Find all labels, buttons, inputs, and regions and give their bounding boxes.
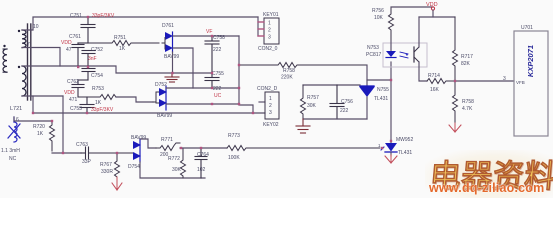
svg-text:R772: R772 [168,156,180,162]
svg-text:VF: VF [206,29,212,35]
svg-text:C756: C756 [341,99,353,105]
diode D761 BAV99 [162,32,173,52]
wire stub CON2_D pin2 [259,101,265,103]
svg-text:2: 2 [269,103,272,109]
svg-text:D761: D761 [162,23,174,29]
svg-text:N755: N755 [377,87,389,93]
svg-text:10K: 10K [374,15,384,21]
svg-text:R758: R758 [283,68,295,74]
wire VFB node [455,80,514,82]
resistor R720 1K [50,121,55,151]
capacitor C756 [330,85,344,119]
svg-text:1: 1 [378,143,381,148]
svg-text:471: 471 [69,97,78,103]
svg-text:3nF: 3nF [88,56,97,62]
wire feedback rail long [33,112,265,114]
svg-text:R714: R714 [428,73,440,79]
capacitor C764 102 [195,148,207,178]
svg-text:NC: NC [9,156,17,162]
svg-text:R771: R771 [161,137,173,143]
resistor R751 [88,41,159,46]
svg-text:C754: C754 [91,73,103,79]
svg-text:2: 2 [268,28,271,34]
wire R756 to VDD [391,6,433,8]
core [27,24,29,100]
wire D752 top [166,87,239,89]
wire bottom rail left [52,152,81,154]
svg-text:1K: 1K [119,46,126,52]
optocoupler N753 PC817 [383,41,427,67]
wire top right rail [419,16,455,18]
resistor R756 10K [389,7,394,43]
svg-text:3: 3 [503,76,506,82]
svg-text:30K: 30K [172,167,182,173]
capacitor C753 [80,97,94,113]
capacitor C761 [72,43,88,67]
svg-text:D752: D752 [155,82,167,88]
resistor R758 220K [239,63,366,68]
svg-text:N753: N753 [367,45,379,51]
resistor R757 30K [301,85,306,119]
svg-text:R773: R773 [228,133,240,139]
svg-text:TL431: TL431 [374,96,388,102]
svg-text:C762: C762 [67,79,79,85]
resistor R717 82K [453,17,458,81]
shunt MW952 TL431 [381,62,397,156]
wire D761 bottom to D752 top [173,48,193,88]
svg-text:KEY02: KEY02 [263,122,279,128]
svg-text:47: 47 [66,47,72,53]
svg-text:220K: 220K [281,75,293,81]
svg-text:U701: U701 [521,25,533,31]
wire bus [239,36,253,113]
svg-text:1K: 1K [37,131,44,137]
primary winding [3,49,7,72]
wire D754 top to rail [140,139,156,148]
svg-text:C755: C755 [212,71,224,77]
diode D752 BAV99 [159,86,167,110]
svg-text:10: 10 [33,24,39,30]
wire comp network bottom [303,118,367,120]
svg-text:4.7K: 4.7K [462,106,473,112]
wire top rail [22,17,258,30]
wire comp network top [303,84,360,86]
svg-text:C764: C764 [197,152,209,158]
svg-text:16K: 16K [430,87,440,93]
secondary winding 1 [22,30,26,48]
capacitor C752 [82,51,95,69]
capacitor C755 [205,78,219,89]
ground G2 [296,119,310,133]
svg-text:222: 222 [213,47,222,53]
svg-text:3: 3 [269,110,272,116]
svg-text:BAV99: BAV99 [164,54,179,60]
wire opto emitter [419,62,427,81]
ground arrow R758b [449,123,461,132]
resistor R714 16K [427,79,454,84]
resistor R758b 4.7K [453,81,458,123]
wire NC to R720 [14,117,52,121]
shunt N755 TL431 [359,65,375,119]
svg-text:1: 1 [269,96,272,102]
ground arrow R767 [112,177,122,190]
svg-text:1: 1 [268,21,271,27]
svg-text:1K: 1K [95,100,102,106]
wire winding2 bottom [22,95,63,97]
svg-text:VDD: VDD [64,90,75,96]
resistor R771 200 [156,143,180,151]
svg-text:PC817: PC817 [366,52,382,58]
ground arrow MW952 [385,155,397,163]
svg-text:C752: C752 [91,47,103,53]
svg-text:R758: R758 [462,99,474,105]
svg-text:D754: D754 [128,164,140,170]
capacitor C751 [81,17,95,43]
svg-text:6: 6 [16,117,19,123]
watermark logo [425,150,553,198]
svg-text:33pF/3KV: 33pF/3KV [92,13,115,19]
wire mid rail [180,147,227,149]
svg-text:C763: C763 [76,142,88,148]
svg-text:MW952: MW952 [396,137,413,143]
svg-text:VDD: VDD [61,40,72,46]
secondary winding 2 [22,66,26,96]
wire D761 to ground [172,52,174,73]
wire D754 bottom [140,162,205,178]
wire to feedback rail [32,96,34,113]
diode D754 BAV99 [133,139,141,162]
wire pin7 [22,48,60,67]
svg-text:33pF/3KV: 33pF/3KV [91,107,114,113]
resistor R753 [78,95,116,100]
svg-text:R756: R756 [372,8,384,14]
svg-text:R717: R717 [461,54,473,60]
inductor NC [8,117,20,142]
wire ground mid [22,66,212,73]
svg-text:100K: 100K [228,155,240,161]
svg-text:330R: 330R [101,169,113,175]
svg-text:33P: 33P [82,159,92,165]
svg-text:UC: UC [214,93,222,99]
connector CON2_D KEY02 [265,92,279,119]
svg-text:3: 3 [268,35,271,41]
wire D752 bracket [153,92,159,103]
connector CON2_0 KEY01 [258,17,279,44]
svg-text:L721: L721 [10,106,22,112]
svg-text:KXP2071: KXP2071 [526,45,535,77]
svg-text:222: 222 [340,108,349,114]
ground G1 [165,73,179,82]
resistor R772 30K [181,148,186,178]
svg-text:1.1 3mH: 1.1 3mH [1,148,20,154]
svg-text:R753: R753 [92,86,104,92]
capacitor C754 [82,69,95,81]
capacitor C762 [72,80,88,97]
svg-text:222: 222 [213,86,222,92]
wire D752 bottom [166,103,239,105]
svg-text:KEY01: KEY01 [263,12,279,18]
svg-text:R751: R751 [114,35,126,41]
wire winding2 to bottom rail [62,96,64,153]
svg-text:R720: R720 [33,124,45,130]
svg-text:C751: C751 [70,13,82,19]
svg-text:BAV99: BAV99 [157,113,172,119]
transformer L721 [3,24,31,100]
wire VF node [173,35,239,37]
svg-text:CON2_0: CON2_0 [258,46,278,52]
resistor R773 100K [227,146,380,151]
svg-text:R767: R767 [100,162,112,168]
wire N755 to opto cathode [367,79,391,81]
capacitor C758 [205,36,219,77]
IC U701 KXP2071 [514,31,548,136]
svg-text:102: 102 [197,167,206,173]
wire opto collector [418,17,420,47]
svg-text:30K: 30K [307,103,317,109]
svg-text:82K: 82K [461,61,471,67]
svg-text:BAV99: BAV99 [131,135,146,141]
svg-text:CON2_D: CON2_D [257,86,278,92]
svg-text:R757: R757 [307,95,319,101]
capacitor C763 [81,147,134,159]
resistor R767 330R [115,153,120,177]
svg-text:VFB: VFB [516,80,525,85]
svg-text:C753: C753 [70,106,82,112]
svg-text:C758: C758 [213,35,225,41]
svg-text:TL431: TL431 [398,150,412,156]
